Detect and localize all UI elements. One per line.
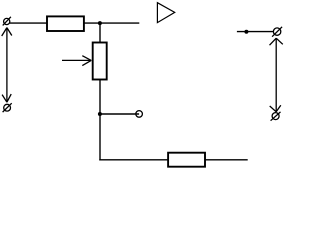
node junction dot (tap) xyxy=(98,112,102,116)
port P2 (bottom-left terminal) xyxy=(3,103,12,112)
wire right of R3 xyxy=(205,159,248,161)
wire from P1 to R1 xyxy=(10,22,47,24)
resistor R2 (vertical) xyxy=(93,43,107,80)
wire from R2 bottom down to bottom rail xyxy=(99,80,101,161)
bottom wire from corner to R3 xyxy=(99,159,168,161)
resistor R3 (bottom horizontal) xyxy=(168,153,205,167)
open circle terminal (node) xyxy=(136,111,143,118)
port P4 (bottom-right terminal) xyxy=(271,112,281,121)
amplifier triangle symbol xyxy=(157,3,174,23)
wire from R1 to right end xyxy=(84,22,139,24)
wire from tap junction to open terminal xyxy=(100,113,139,115)
wire junction down to R2 xyxy=(99,23,101,42)
right voltage arrow (double-headed) xyxy=(270,38,283,112)
node junction dot on top wire xyxy=(98,21,102,25)
left voltage arrow (double-headed) xyxy=(2,28,12,103)
node junction dot on right wire xyxy=(244,30,248,34)
port P3 (top-right terminal) xyxy=(272,27,282,37)
right wire to P3 xyxy=(237,31,273,33)
port P1 (top-left terminal) xyxy=(3,17,11,26)
arrow pointing into R2 (wiper arrow) xyxy=(62,56,91,66)
resistor R1 (top horizontal) xyxy=(47,16,84,31)
